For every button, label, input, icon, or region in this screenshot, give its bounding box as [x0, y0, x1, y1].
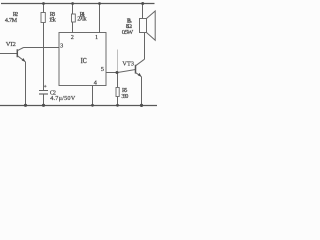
svg-text:VT3: VT3 — [122, 60, 134, 67]
wire VT2 emitter diagonal — [17, 56, 25, 62]
wire R3 top lead — [43, 4, 45, 13]
node ground / R5 — [116, 104, 119, 107]
wire top supply rail — [1, 3, 155, 5]
speaker BL body — [140, 19, 147, 33]
svg-text:15k: 15k — [49, 16, 57, 23]
wire VT2 collector to IC pin 3 — [24, 47, 60, 49]
svg-text:IC: IC — [81, 56, 87, 65]
node ground / VT3 emitter — [140, 104, 143, 107]
wire IC pin 5 output — [106, 72, 118, 74]
wire VT2 collector diagonal — [17, 48, 23, 51]
svg-text:4.7M: 4.7M — [5, 17, 18, 24]
transistor VT2 base bar — [16, 49, 18, 57]
node top rail / R4 — [71, 2, 74, 5]
VT2 emitter arrowhead — [22, 58, 26, 62]
svg-text:4.7μ/50V: 4.7μ/50V — [50, 95, 76, 102]
wire VT3 collector up to speaker — [144, 33, 146, 60]
svg-text:1: 1 — [95, 34, 98, 41]
wire VT2 base lead — [0, 53, 17, 55]
node pin5 / R5 / VT3 base — [116, 71, 119, 74]
wire bottom ground rail — [0, 105, 157, 107]
resistor R4 — [72, 14, 76, 22]
wire speaker top lead — [142, 4, 144, 19]
wire C2 bottom lead — [43, 94, 45, 106]
node ground / pin4 — [91, 104, 94, 107]
wire R4 top lead — [72, 4, 74, 15]
capacitor C2 top plate — [39, 90, 48, 92]
resistor R3 — [41, 13, 45, 23]
wire VT2 emitter down to ground — [25, 62, 27, 106]
svg-text:270k: 270k — [77, 16, 87, 23]
svg-text:4: 4 — [94, 80, 97, 87]
svg-text:2: 2 — [71, 34, 74, 41]
wire pin5 node to VT3 base — [118, 70, 136, 73]
node ground / C2 — [42, 104, 45, 107]
wire R5 bottom lead — [117, 97, 119, 106]
IC box — [59, 33, 106, 86]
wire IC pin 4 to ground — [92, 86, 94, 106]
transistor VT3 base bar — [135, 65, 137, 74]
svg-text:VT2: VT2 — [6, 41, 16, 48]
speaker BL cone — [147, 11, 156, 40]
node top rail / speaker — [141, 2, 144, 5]
node top rail / pin1 — [98, 2, 101, 5]
wire VT3 emitter down to ground — [141, 77, 143, 106]
wire R3 bottom to C2 — [43, 23, 45, 91]
C2 plus polarity mark — [44, 85, 47, 88]
VT3 emitter arrowhead — [138, 73, 142, 77]
svg-text:5: 5 — [101, 66, 104, 73]
node top rail / R3 — [42, 2, 45, 5]
wire R4 bottom to IC pin 2 — [72, 22, 74, 33]
capacitor C2 bottom plate — [39, 93, 48, 95]
wire IC pin 1 to top rail — [99, 4, 101, 34]
node ground / VT2 emitter — [24, 104, 27, 107]
resistor R5 — [116, 88, 119, 97]
wire VT3 collector diagonal — [136, 59, 145, 66]
wire R5 top lead — [117, 73, 119, 88]
wire stub above node — [117, 50, 119, 73]
wire VT3 emitter diagonal — [136, 73, 142, 77]
svg-text:3: 3 — [60, 43, 63, 50]
svg-text:0.5W: 0.5W — [122, 29, 134, 36]
svg-text:330: 330 — [121, 93, 128, 100]
